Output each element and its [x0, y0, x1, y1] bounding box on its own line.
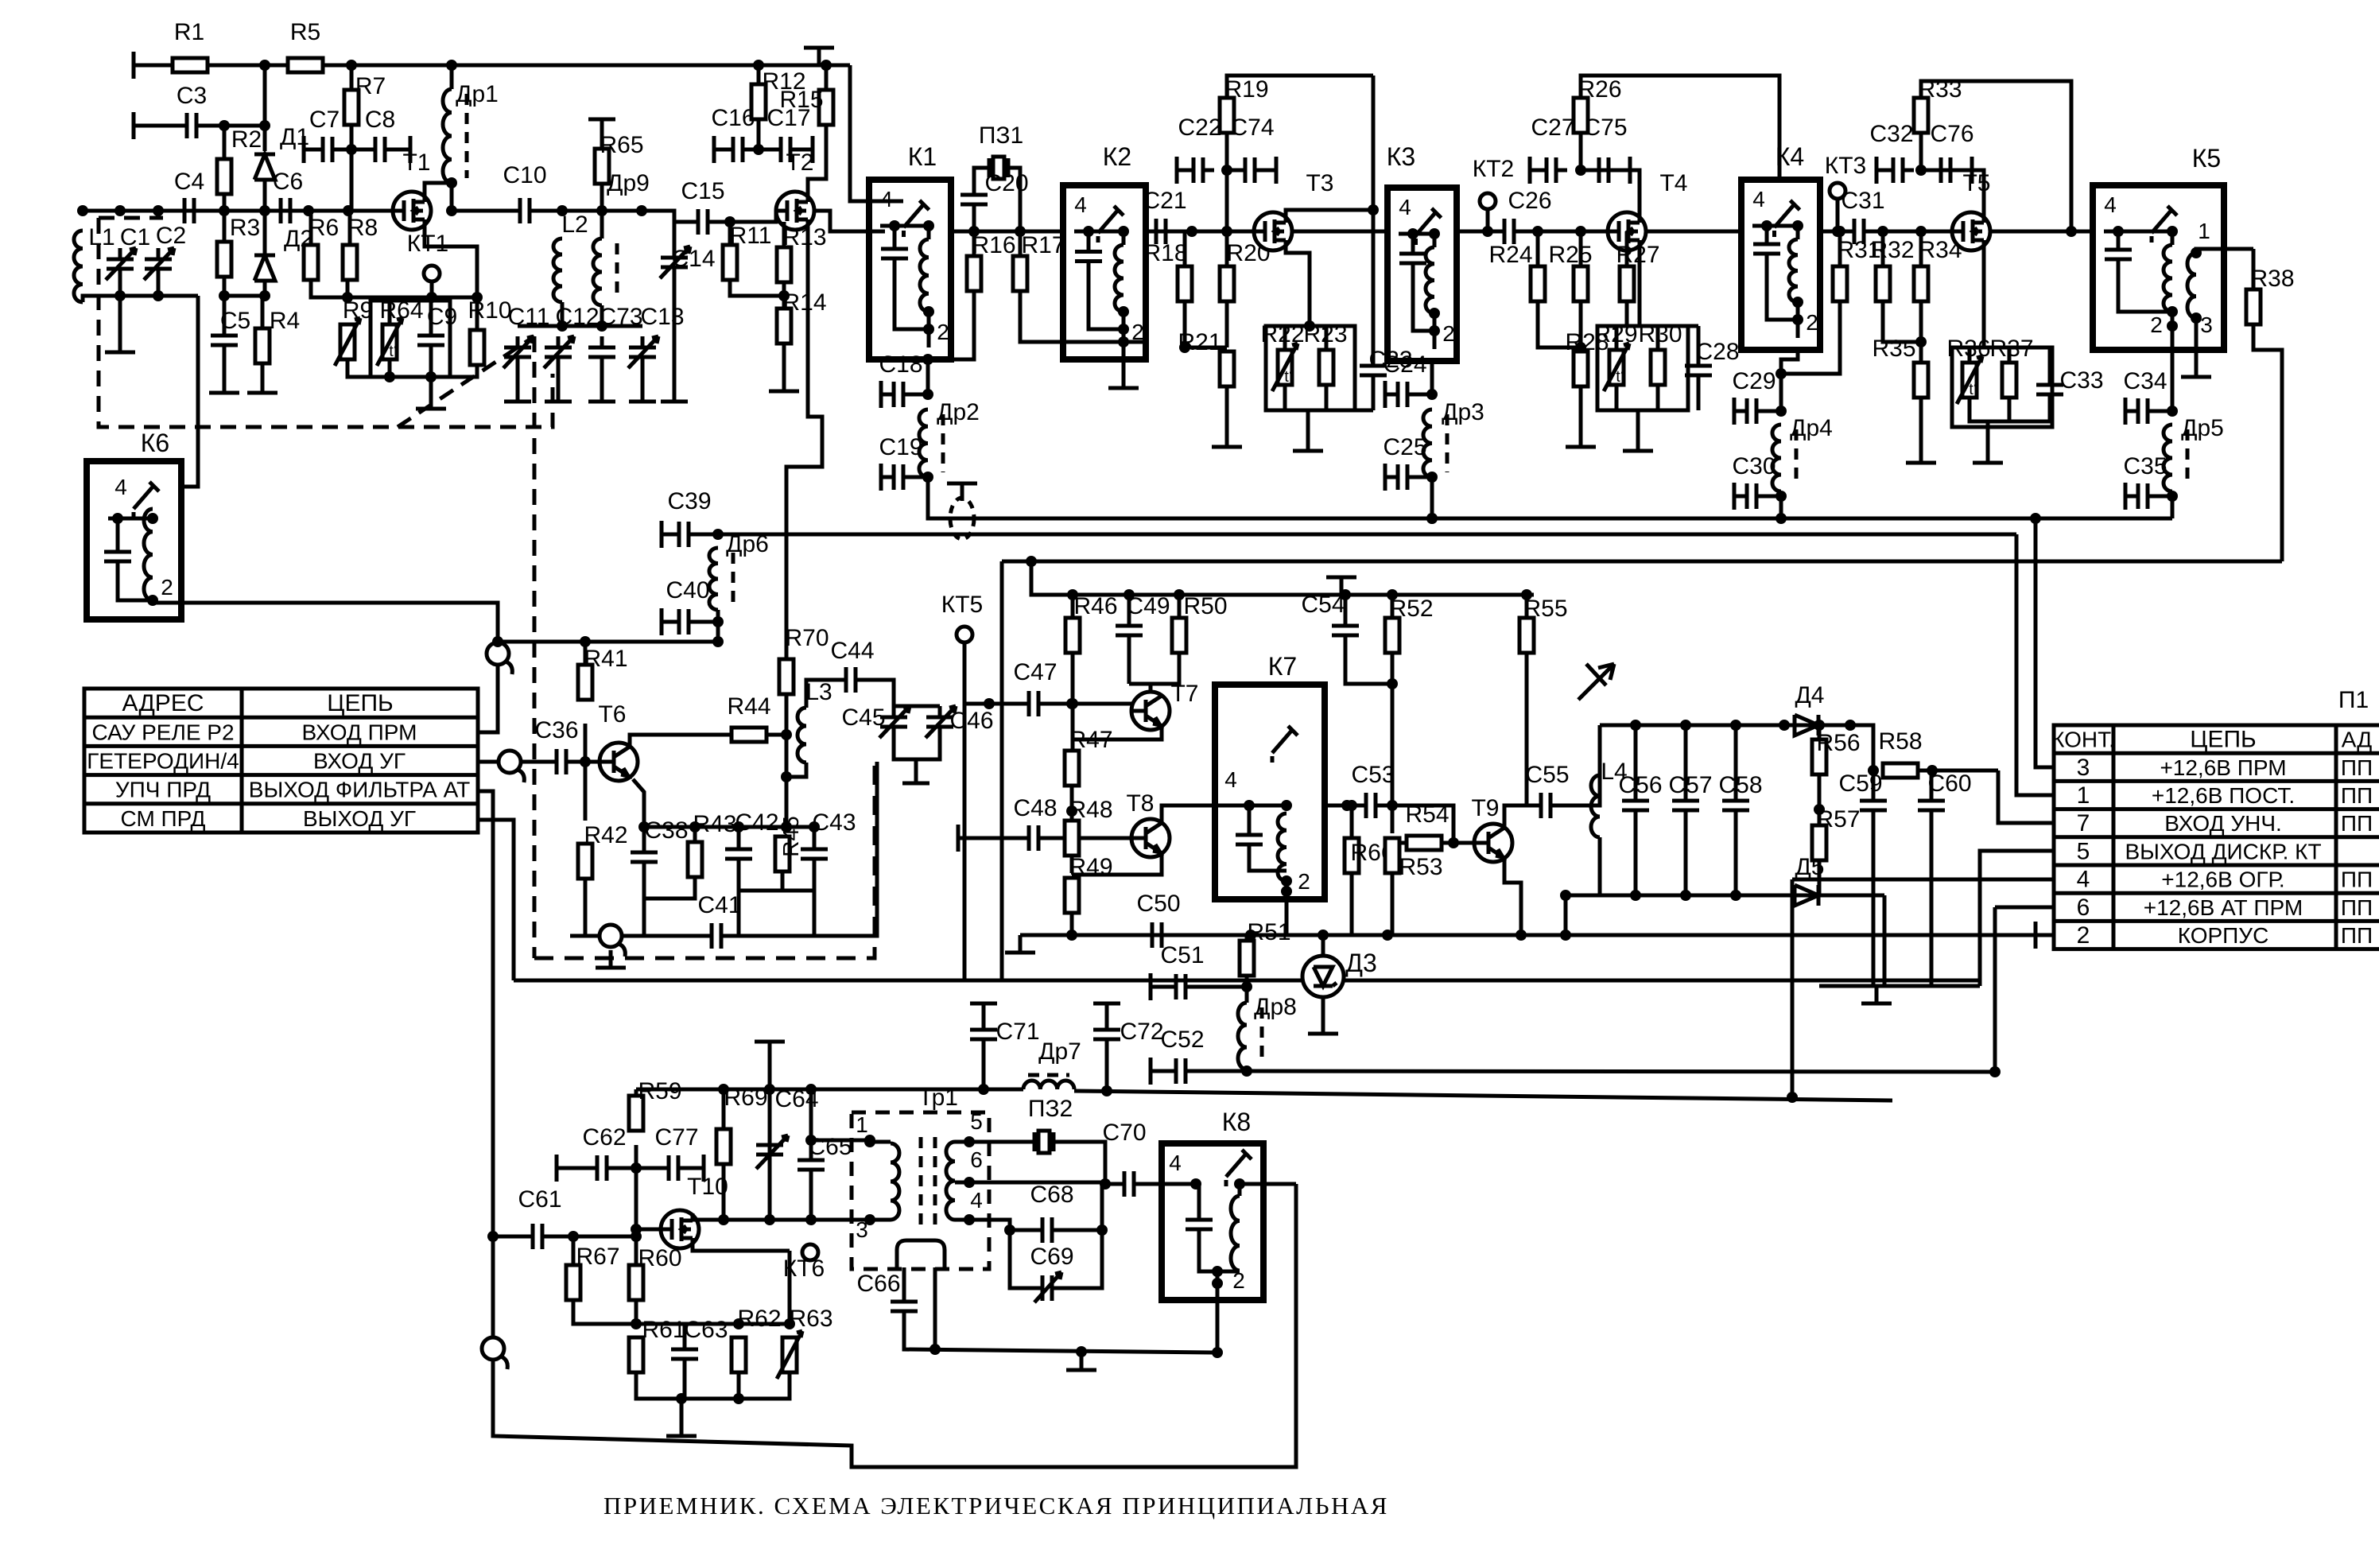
- Tp1 pin6 wire: [955, 1181, 1105, 1185]
- svg-text:4: 4: [970, 1188, 983, 1213]
- R26 top wire: [1581, 76, 1779, 180]
- resistor R24: [1488, 242, 1545, 301]
- svg-text:R3: R3: [230, 215, 260, 241]
- wire R38 bottom: [2253, 324, 2282, 561]
- svg-text:R1: R1: [174, 19, 204, 45]
- capacitor C33: [2036, 367, 2104, 406]
- wire C47 to T7 base: [1046, 702, 1132, 706]
- terminal left of C35: [2124, 483, 2128, 510]
- T10 source down: [788, 1251, 792, 1324]
- T10 source: [693, 1245, 790, 1251]
- wire C14 bottom: [673, 278, 677, 402]
- capacitor C70: [1102, 1120, 1146, 1197]
- svg-text:4: 4: [1399, 195, 1411, 219]
- K6 pin2 out: [153, 600, 498, 642]
- connector a4: [482, 1337, 507, 1369]
- К4 pin4: [1752, 187, 1765, 212]
- svg-text:R52: R52: [1389, 596, 1433, 622]
- svg-text:C2: C2: [156, 223, 186, 249]
- wire mixer left ground: [1020, 933, 1072, 937]
- wire C43 g2: [813, 891, 817, 918]
- rail3 dots: [1026, 556, 1037, 567]
- R3 D2 node dots: [219, 290, 270, 301]
- wire R64 bottom: [388, 359, 392, 377]
- C51 lead: [1151, 985, 1168, 989]
- T10 drain rail: [693, 1213, 870, 1220]
- svg-text:C13: C13: [640, 304, 684, 330]
- C52 junction: [1241, 1065, 1252, 1077]
- C39 lead: [662, 533, 671, 537]
- R52 top lead: [1391, 595, 1395, 618]
- К1 internal top wire: [893, 226, 897, 238]
- label Dr1: [456, 81, 499, 107]
- K6 internal capacitor: [104, 541, 131, 572]
- svg-text:C52: C52: [1160, 1027, 1204, 1053]
- К4 cap bottom: [1767, 265, 1798, 320]
- svg-text:КТ2: КТ2: [1473, 156, 1515, 182]
- svg-text:R7: R7: [355, 73, 386, 99]
- svg-text:+12,6В ПОСТ.: +12,6В ПОСТ.: [2152, 783, 2295, 808]
- terminal left of C7: [302, 136, 306, 163]
- terminal right of C75: [1628, 157, 1632, 184]
- resistor R3: [217, 215, 260, 277]
- R27 bottom: [1627, 301, 1640, 326]
- row6 drop: [1993, 907, 1997, 1072]
- wire C45 C46 top: [894, 704, 940, 708]
- svg-text:4: 4: [2104, 192, 2117, 217]
- R50 top lead: [1178, 595, 1182, 618]
- svg-text:T3: T3: [1306, 170, 1333, 196]
- junction L3 R45: [781, 771, 792, 782]
- label C64: [774, 1086, 818, 1112]
- chassis bar above mixer rail: [1326, 577, 1356, 595]
- svg-text:R16: R16: [972, 232, 1015, 258]
- svg-text:ПЗ2: ПЗ2: [1028, 1096, 1073, 1122]
- wire C49 top: [1127, 595, 1131, 615]
- terminal left of C19: [879, 464, 883, 491]
- C61 left: [493, 1235, 525, 1239]
- label C13: [640, 304, 684, 330]
- capacitor C56: [1618, 772, 1662, 821]
- capacitor C50: [1136, 891, 1180, 948]
- svg-text:C47: C47: [1013, 659, 1057, 685]
- capacitor C3: [176, 83, 208, 138]
- C74 lead: [1227, 169, 1237, 173]
- filter К1 box: [869, 142, 951, 359]
- svg-text:ПРИЕМНИК. СХЕМА ЭЛЕКТРИЧЕСКА: ПРИЕМНИК. СХЕМА ЭЛЕКТРИЧЕСКАЯ ПРИНЦИПИАЛ…: [603, 1492, 1389, 1519]
- cap row ground bar1: [504, 400, 531, 404]
- diode D2: [254, 226, 313, 281]
- C30 lead: [1734, 495, 1739, 499]
- junction C47 R47: [1066, 698, 1077, 709]
- svg-text:5: 5: [970, 1109, 983, 1134]
- wire R41 top: [584, 642, 588, 665]
- resistor R13: [777, 224, 827, 282]
- K5 dots: [2113, 226, 2202, 332]
- К1 internal coil: [920, 239, 929, 312]
- svg-text:7: 7: [2077, 810, 2090, 836]
- R33 leads: [1919, 133, 1923, 170]
- capacitor C5: [211, 308, 250, 356]
- svg-text:2: 2: [2077, 922, 2090, 949]
- resistor R11: [723, 223, 771, 280]
- label C73: [599, 304, 642, 330]
- capacitor C21: [1143, 188, 1186, 244]
- K6 internal wiring2: [118, 572, 153, 600]
- ground under K2: [1108, 371, 1139, 388]
- capacitor C47: [1013, 659, 1057, 716]
- resistor R10: [468, 297, 511, 365]
- terminal left of C25: [1384, 464, 1387, 491]
- label R9: [343, 297, 373, 324]
- C51 junction: [1241, 981, 1252, 992]
- wire T9 emitter: [1504, 858, 1521, 935]
- capacitor C16: [711, 105, 755, 162]
- T1 source dot: [472, 292, 483, 303]
- K6 internal coil: [144, 509, 153, 600]
- label C69: [1030, 1244, 1073, 1270]
- svg-text:ПЗ1: ПЗ1: [979, 122, 1023, 149]
- svg-text:R8: R8: [347, 215, 378, 241]
- resistor R20: [1220, 240, 1271, 301]
- wire R11 down: [730, 280, 784, 296]
- T3 drain vertical: [1372, 76, 1376, 355]
- wire C15 to T2 gate: [716, 211, 776, 222]
- label R62: [737, 1306, 781, 1332]
- Tp1 pin4 wire: [955, 1220, 1010, 1230]
- wire to a1 connector column: [498, 640, 718, 644]
- K2 pin2 R17 dot: [1118, 336, 1129, 347]
- resistor R35: [1872, 336, 1928, 398]
- C72 stub: [1105, 1003, 1109, 1020]
- svg-text:T4: T4: [1659, 170, 1687, 196]
- capacitor C62: [582, 1124, 626, 1181]
- KT2 dot: [1482, 226, 1493, 237]
- svg-text:R62: R62: [737, 1306, 781, 1332]
- K5 internal coil A: [2164, 245, 2172, 312]
- svg-text:КТ3: КТ3: [1825, 153, 1867, 179]
- label L3: [805, 679, 832, 705]
- svg-text:C33: C33: [2059, 367, 2103, 394]
- C60 bottom: [1930, 821, 1934, 986]
- R60 top: [635, 1236, 638, 1265]
- wire R70 bottom: [785, 694, 789, 827]
- capacitor C46 (variable): [926, 706, 956, 738]
- resistor R27: [1616, 242, 1659, 301]
- transistor T1: [393, 149, 431, 230]
- resistor R64 (thermistor): [377, 318, 402, 366]
- resistor R22 (thermistor): [1272, 343, 1298, 391]
- terminal left of C39: [660, 521, 664, 548]
- Tp1 pin5 wire: [955, 1140, 1002, 1144]
- resistor R42: [578, 822, 628, 879]
- wire C38 ground: [642, 898, 646, 918]
- wire C38 R43 bottoms: [644, 873, 695, 898]
- svg-text:ВХОД ПРМ: ВХОД ПРМ: [302, 720, 417, 744]
- svg-text:2: 2: [161, 575, 173, 600]
- svg-text:L3: L3: [805, 679, 832, 705]
- wire R8 up: [348, 211, 352, 245]
- К3 internal top wire: [1411, 234, 1415, 243]
- ground under C42: [724, 918, 754, 936]
- svg-text:Д5: Д5: [1795, 854, 1824, 880]
- Tp1 secondary coil: [946, 1142, 955, 1220]
- row4 drop: [1791, 879, 1795, 1097]
- K4 pin2 down: [1781, 347, 1798, 411]
- resistor R55: [1519, 596, 1568, 653]
- label C60: [1927, 770, 1971, 797]
- T4 out: [1646, 230, 1741, 234]
- K5 pin2: [2150, 312, 2163, 337]
- C33 top: [2048, 347, 2052, 374]
- capacitor C74: [1230, 114, 1274, 183]
- capacitor C6: [270, 169, 303, 223]
- K7 pin4: [1224, 767, 1237, 792]
- resistor R69: [716, 1085, 768, 1164]
- terminal left of C16: [712, 136, 716, 163]
- wire C38 top: [642, 827, 646, 841]
- Tp1 pin1: [856, 1112, 868, 1137]
- capacitor C38: [631, 817, 689, 873]
- svg-text:R51: R51: [1247, 919, 1290, 945]
- capacitor C42: [725, 809, 779, 870]
- K8 pin4: [1169, 1151, 1182, 1175]
- R20 leads: [1225, 231, 1229, 266]
- C61 right: [550, 1235, 636, 1239]
- PZ1 left leg: [972, 215, 976, 231]
- wire C41 right: [729, 762, 877, 936]
- svg-text:R48: R48: [1069, 797, 1112, 823]
- wire R9 row: [347, 296, 477, 300]
- wire C53 right: [1384, 805, 1453, 843]
- capacitor C63: [671, 1317, 728, 1370]
- test point KT3: [1825, 153, 1867, 199]
- C19 to Dr2 bottom: [911, 475, 928, 479]
- capacitor C57: [1668, 772, 1712, 821]
- svg-text:1: 1: [2198, 219, 2210, 243]
- C57 lead2: [1684, 821, 1688, 895]
- ground under C5: [209, 375, 239, 393]
- К3 top node: [1399, 234, 1434, 247]
- C28 top: [1697, 326, 1701, 355]
- wire KT5 down: [963, 642, 967, 704]
- R24 bottom: [1538, 301, 1581, 347]
- resistor R61: [629, 1317, 686, 1372]
- resistor R67: [566, 1244, 620, 1300]
- svg-text:1: 1: [2077, 782, 2090, 809]
- K5 pin3 down: [2195, 318, 2199, 359]
- choke Dr8: [1238, 1003, 1262, 1069]
- label L1: [88, 224, 114, 250]
- T3 drain vertical low: [1372, 386, 1376, 410]
- svg-text:C44: C44: [830, 638, 874, 664]
- bar above C72: [1093, 1002, 1120, 1006]
- svg-text:R53: R53: [1399, 854, 1442, 880]
- Dr5 to rail1 end: [2171, 491, 2175, 518]
- diode D4: [1795, 682, 1825, 735]
- connector a3: [600, 925, 625, 957]
- К1 pin4: [880, 187, 893, 212]
- label C14: [671, 246, 715, 272]
- svg-text:C55: C55: [1525, 762, 1569, 788]
- svg-text:R14: R14: [782, 289, 826, 316]
- ground under R22 R23: [1293, 433, 1323, 451]
- svg-text:C39: C39: [667, 488, 711, 514]
- svg-text:C51: C51: [1160, 942, 1204, 968]
- terminal left of C3: [132, 112, 136, 139]
- C33 bottom: [2009, 406, 2050, 421]
- Tp1 primary coil: [891, 1143, 899, 1220]
- label Dr5: [2181, 415, 2224, 441]
- svg-text:L1: L1: [88, 224, 114, 250]
- resistor R51: [1240, 919, 1291, 976]
- wire C13 bottom: [641, 368, 645, 402]
- stub VYHOD UG row: [478, 820, 514, 980]
- К2 internal coil: [1115, 245, 1124, 312]
- wire C48 input: [958, 836, 1021, 840]
- svg-text:L2: L2: [561, 212, 588, 238]
- capacitor C11 (variable): [503, 336, 534, 368]
- wire T6 emitter: [633, 779, 644, 827]
- wire L3 top: [806, 680, 838, 708]
- Dr3 to rail1: [1430, 477, 1434, 518]
- ground under connector a3: [596, 950, 626, 968]
- K7 switch arm: [1272, 726, 1298, 766]
- junction R66 top: [1346, 800, 1357, 811]
- svg-text:R32: R32: [1870, 237, 1914, 263]
- dashed mechanical diagonal link: [398, 336, 534, 427]
- C24 to Dr3: [1415, 393, 1432, 397]
- resistor R65: [595, 132, 644, 184]
- svg-text:C72: C72: [1120, 1019, 1163, 1045]
- T5 source down: [1982, 247, 1986, 347]
- wire C49 bottom: [1127, 646, 1131, 684]
- crystal filter PZ1: [979, 122, 1023, 179]
- K1 out wire: [951, 230, 1063, 234]
- R30 top lead: [1656, 326, 1660, 350]
- C25 to Dr3 bottom: [1415, 475, 1432, 479]
- svg-text:УПЧ ПРД: УПЧ ПРД: [115, 778, 211, 802]
- resistor R58: [1878, 728, 1922, 778]
- R18 R21 dot: [1179, 342, 1190, 353]
- junction R46 R47 base: [1067, 698, 1078, 709]
- wire C46 bottom stub: [914, 759, 918, 783]
- wire R3: [223, 211, 227, 242]
- wire R3 to C5: [223, 277, 227, 332]
- label Dr6: [726, 531, 769, 557]
- svg-text:R4: R4: [270, 308, 300, 334]
- svg-text:C4: C4: [174, 169, 204, 195]
- svg-text:КТ5: КТ5: [941, 592, 984, 618]
- C34 to Dr5: [2156, 409, 2172, 413]
- wire C42 ground: [737, 891, 741, 918]
- rail3 supply: [1002, 560, 2282, 564]
- svg-text:C58: C58: [1718, 772, 1762, 798]
- K6 internal wiring: [116, 518, 120, 541]
- variable capacitor C64: [756, 1135, 788, 1169]
- C56 lead2: [1634, 821, 1638, 895]
- resistor R62: [732, 1337, 746, 1372]
- K8 coil top: [1238, 1184, 1242, 1196]
- svg-text:3: 3: [2077, 755, 2090, 781]
- wire C73 bottom: [600, 368, 604, 402]
- wire T2 out to K1: [814, 211, 885, 231]
- rail2 to table row1: [2016, 534, 2054, 795]
- К1 switch arm: [904, 200, 929, 240]
- К3 coil bottom: [1433, 313, 1437, 349]
- svg-text:Др3: Др3: [1442, 399, 1484, 425]
- emitter rail dots: [689, 821, 820, 833]
- wire C54 top: [1344, 595, 1348, 615]
- svg-text:ПП: ПП: [2341, 755, 2373, 780]
- svg-text:R63: R63: [789, 1306, 832, 1332]
- resistor R1: [173, 19, 208, 72]
- C23 bottom: [1326, 409, 1373, 413]
- К4 switch arm: [1775, 200, 1800, 240]
- T3 drain dot: [1368, 204, 1379, 215]
- PZ1 C20 dots: [968, 226, 1026, 237]
- stub VHOD UG row: [478, 760, 499, 764]
- К2 coil bottom: [1122, 312, 1126, 347]
- svg-text:К6: К6: [141, 429, 169, 457]
- svg-text:Д3: Д3: [1345, 949, 1376, 977]
- capacitor C35: [2123, 453, 2167, 509]
- rail1 junction dots: [1426, 513, 2041, 524]
- C57 leads: [1684, 725, 1688, 790]
- diode D5: [1795, 854, 1825, 906]
- R36 gnd: [1986, 421, 1990, 445]
- svg-text:Др8: Др8: [1254, 994, 1297, 1020]
- wire L4 top: [1598, 725, 1602, 775]
- К3 cap bottom: [1413, 274, 1434, 331]
- label L4: [1601, 759, 1627, 785]
- svg-text:R67: R67: [576, 1244, 619, 1270]
- label L2: [561, 212, 588, 238]
- filter К4 box: [1741, 142, 1820, 350]
- osc bottom dots: [676, 1393, 744, 1404]
- wire L3 bottom tap: [786, 763, 806, 777]
- wire R6 bottom: [311, 280, 347, 297]
- svg-text:+12,6В ПРМ: +12,6В ПРМ: [2160, 755, 2286, 780]
- K1 C18 dot: [922, 389, 933, 400]
- ground under R35: [1906, 445, 1936, 463]
- wire R13 R14: [782, 282, 786, 309]
- wire R15 bottom: [825, 125, 829, 163]
- ground under K5 pin3: [2181, 359, 2211, 377]
- svg-text:ЦЕПЬ: ЦЕПЬ: [327, 690, 393, 716]
- svg-text:R49: R49: [1069, 854, 1112, 880]
- C63 bottom: [683, 1370, 687, 1399]
- C74 out: [1263, 169, 1276, 173]
- left long vertical: [493, 1184, 1296, 1467]
- chassis above feedthrough: [947, 483, 977, 501]
- T5 input dots: [1877, 226, 1927, 237]
- C75 lead: [1581, 169, 1591, 173]
- choke Dr3: [1423, 409, 1447, 477]
- wire T7 emitter: [1072, 726, 1162, 739]
- capacitor C72: [1093, 1019, 1164, 1050]
- filter K8 box: [1162, 1108, 1263, 1300]
- svg-text:2: 2: [1442, 321, 1455, 346]
- svg-text:R41: R41: [584, 646, 627, 672]
- wire C7 input: [304, 148, 315, 152]
- svg-text:R24: R24: [1488, 242, 1532, 268]
- wire R70 top: [785, 653, 789, 659]
- resistor R60: [629, 1245, 682, 1300]
- bottom supply line: [636, 1088, 1023, 1092]
- capacitor C14 (variable): [660, 246, 690, 278]
- C68 right: [1060, 1184, 1102, 1230]
